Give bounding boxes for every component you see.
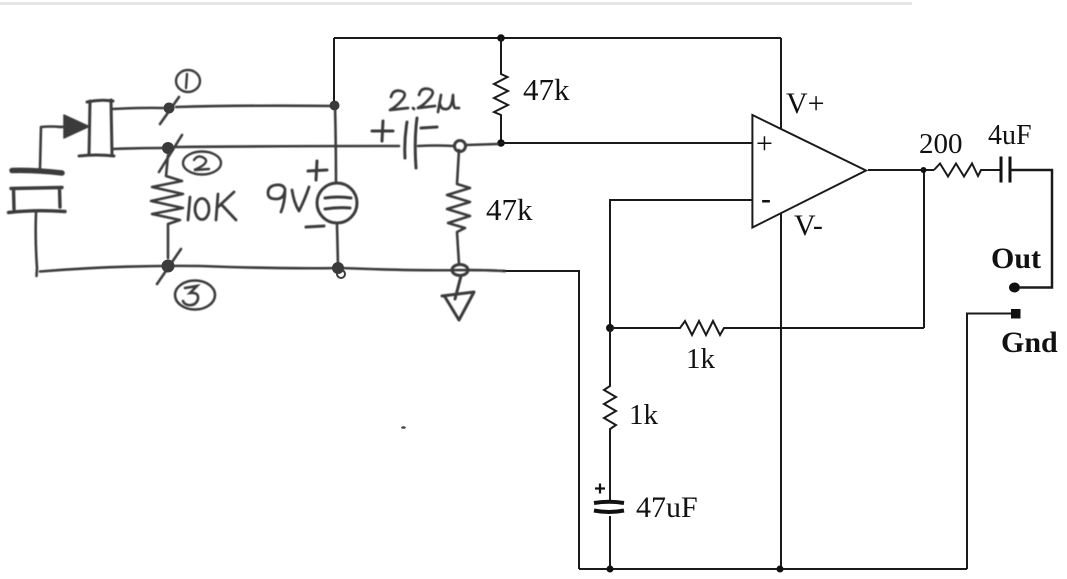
wire V- from op-amp bottom edge to ground rail	[780, 214, 782, 570]
wire C3 top lead	[609, 481, 611, 500]
transistor Q1 arrow (gate)	[58, 125, 72, 128]
node junction output	[921, 167, 927, 173]
node 1 (slashed terminal)	[160, 97, 179, 124]
mic element bottom plate	[9, 188, 66, 213]
svg-text:200: 200	[919, 128, 963, 160]
resistor R5 1k (feedback, horizontal)	[610, 321, 924, 335]
wire mic gate	[40, 127, 62, 169]
svg-text:1k: 1k	[686, 343, 716, 375]
capacitor C2 4uF plates	[1001, 157, 1010, 183]
svg-text:+: +	[756, 127, 773, 160]
node 3 dot	[162, 260, 175, 273]
svg-text:47k: 47k	[523, 72, 570, 107]
label 2.2u (handwritten)	[390, 89, 459, 112]
node dot at battery bottom junction	[332, 262, 344, 274]
wire node 2 to capacitor C1	[176, 146, 399, 147]
svg-text:Gnd: Gnd	[1001, 326, 1058, 359]
svg-text:4uF: 4uF	[988, 120, 1032, 151]
svg-text:47k: 47k	[486, 192, 533, 227]
node 1 dot	[164, 103, 175, 114]
capacitor C3 47uF plus sign	[595, 484, 605, 494]
capacitor C1 minus sign	[421, 127, 437, 128]
resistor R4 1k (vertical)	[604, 328, 616, 481]
circled label 1	[176, 70, 200, 92]
node 2 dot	[162, 142, 174, 154]
wire V+ from rail to op-amp top edge	[780, 38, 782, 129]
node 3 (slashed terminal)	[157, 249, 181, 284]
circled label 2	[183, 152, 221, 175]
wire Q1 drain to node 1	[112, 108, 163, 109]
resistor R1 10K (vertical)	[151, 155, 183, 258]
wire oval node to right	[468, 270, 505, 271]
bottom rail (hand)	[40, 266, 505, 272]
node junction rail-V-	[777, 566, 784, 573]
battery B1 minus sign	[306, 226, 324, 227]
capacitor C1 2.2u left plate	[405, 122, 407, 158]
wire left vertical from hand-drawn ground corner	[503, 271, 579, 569]
label 9V (handwritten)	[268, 185, 309, 212]
resistor R3 47k (hand, vertical)	[447, 150, 470, 264]
open node at +input	[455, 141, 466, 152]
node dot at battery top junction	[330, 101, 340, 111]
svg-text:-: -	[761, 182, 771, 215]
node junction top of 47k R2	[497, 34, 505, 42]
open oval node at ground	[452, 265, 468, 276]
capacitor C1 2.2u right plate	[415, 118, 417, 168]
wire open node to straight wire	[466, 144, 498, 145]
wire op-amp output	[868, 169, 934, 171]
wire Gnd terminal to bottom rail	[967, 314, 1011, 570]
battery B1 inner bars	[325, 197, 351, 209]
terminal Gnd square	[1011, 309, 1021, 319]
node junction rail-C3	[607, 566, 614, 573]
wire node 1 to battery node	[176, 106, 336, 107]
battery B1 plus sign	[308, 161, 327, 180]
wire battery top	[335, 106, 336, 183]
op-amp U1	[752, 115, 866, 228]
circled label 3	[175, 281, 215, 310]
svg-text:V+: V+	[786, 87, 825, 120]
svg-text:1k: 1k	[629, 399, 659, 431]
label 10K (handwritten)	[188, 192, 236, 220]
capacitor C3 47uF plates	[594, 502, 624, 512]
battery B1 circle	[317, 183, 357, 223]
terminal Out dot	[1009, 283, 1020, 293]
wire top supply rail	[334, 37, 781, 39]
node junction +input	[497, 139, 505, 147]
wire feedback up to output node	[923, 170, 925, 328]
ground symbol (hand arrow)	[442, 276, 474, 320]
wire Q1 source to node 2	[112, 148, 162, 149]
transistor Q1 body bar	[79, 100, 114, 156]
wire battery bottom	[337, 224, 338, 266]
svg-text:47uF: 47uF	[636, 491, 698, 524]
wire left drop from rail to battery node	[333, 38, 335, 105]
node 2 (slashed terminal)	[159, 135, 182, 172]
wire mic bottom plate to rail	[36, 213, 37, 276]
wire -input to op-amp with corner	[610, 200, 752, 328]
svg-text:Out: Out	[991, 242, 1041, 275]
capacitor C1 plus sign	[372, 121, 393, 141]
resistor R2 47k (vertical, to +input)	[494, 38, 508, 143]
wire C3 bottom lead	[609, 516, 611, 569]
resistor R6 200	[934, 164, 1001, 177]
node junction feedback	[606, 324, 614, 332]
wire C2 to Out terminal	[1010, 170, 1052, 288]
svg-text:V-: V-	[794, 209, 823, 242]
wire bottom ground rail	[579, 568, 967, 570]
mic element top plate	[12, 170, 62, 173]
wire +input to op-amp	[501, 142, 752, 144]
wire C1 to open node	[418, 144, 454, 147]
